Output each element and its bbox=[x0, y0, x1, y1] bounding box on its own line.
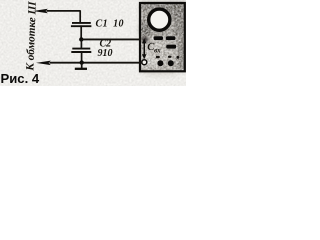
panel round knob 2 bbox=[168, 60, 174, 66]
top lead arrow to winding bbox=[33, 9, 48, 14]
panel bar knob 1 bbox=[154, 36, 163, 40]
oscilloscope body (instrument box) bbox=[139, 3, 185, 72]
capacitor C2 bbox=[71, 49, 91, 52]
wire: junction to C2 bbox=[80, 40, 82, 49]
scan smudge under box bbox=[147, 74, 177, 77]
wire: top horizontal bbox=[47, 10, 81, 12]
svg-text:Рис. 4: Рис. 4 bbox=[1, 71, 40, 86]
input capacitance double arrow bbox=[142, 38, 147, 59]
panel round knob 1 bbox=[157, 60, 163, 66]
wire: middle horizontal to instrument bbox=[81, 38, 141, 40]
wire: C2 to bottom wire bbox=[81, 53, 83, 64]
bottom lead arrow to winding bbox=[36, 61, 51, 66]
oscilloscope screen (round CRT) bbox=[149, 9, 170, 30]
ground stub bbox=[81, 63, 83, 69]
wire: C1 to junction bbox=[80, 27, 82, 40]
panel small dot right bbox=[176, 56, 179, 59]
node junction B bbox=[80, 60, 84, 64]
node junction A bbox=[79, 37, 83, 41]
svg-text:С1 10: С1 10 bbox=[96, 19, 124, 30]
instrument box border bbox=[140, 3, 185, 71]
wire: top vertical drop bbox=[79, 10, 81, 22]
panel tick marks bbox=[156, 56, 160, 58]
capacitor C1 bbox=[71, 23, 92, 26]
input terminal circle bbox=[142, 60, 147, 65]
wire: bottom horizontal bbox=[50, 62, 143, 64]
panel bar knob 2 bbox=[166, 36, 176, 40]
ground bar bbox=[75, 68, 87, 70]
svg-text:910: 910 bbox=[98, 48, 113, 59]
panel bar knob 3 bbox=[166, 45, 176, 49]
page scan speckle bbox=[0, 0, 186, 86]
wire entry shadow blob bbox=[141, 37, 148, 42]
